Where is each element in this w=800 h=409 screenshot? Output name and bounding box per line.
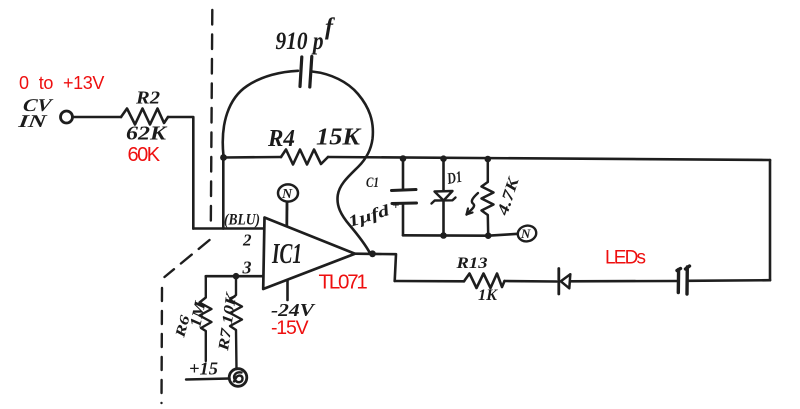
svg-text:R2: R2 <box>135 88 160 108</box>
node N circle right <box>516 224 537 243</box>
wire output to corner and down <box>355 254 396 281</box>
resistor 4.7K branch <box>482 159 494 236</box>
op-amp U1 triangle <box>263 218 355 290</box>
wire into pin 2 <box>193 227 263 230</box>
wire LED2 to right rail <box>688 279 770 282</box>
wire input to R2 <box>73 116 121 119</box>
svg-text:C1: C1 <box>366 175 379 191</box>
svg-text:62K: 62K <box>126 124 168 145</box>
svg-text:R13: R13 <box>455 255 487 272</box>
svg-text:R4: R4 <box>267 126 295 152</box>
wire junction to pin2 node <box>222 158 225 229</box>
dashed line vertical bottom <box>160 288 163 403</box>
dashed line vertical top <box>211 10 213 227</box>
feedback loop right arc and S-curve to output <box>312 72 373 253</box>
svg-text:D1: D1 <box>445 169 463 188</box>
resistor R4 <box>281 150 328 165</box>
wire into pin 3 <box>206 275 263 278</box>
resistor R7 10K vertical <box>230 276 242 369</box>
capacitor C1 branch <box>402 159 405 190</box>
svg-text:2: 2 <box>242 231 252 250</box>
svg-text:15K: 15K <box>316 125 362 151</box>
right vertical rail <box>769 160 772 280</box>
resistor R13 <box>464 274 505 289</box>
svg-text:3: 3 <box>242 258 252 278</box>
node dot C1 top <box>400 155 407 162</box>
svg-text:N: N <box>281 187 293 202</box>
svg-text:60K: 60K <box>128 144 161 166</box>
svg-text:0 to +13V: 0 to +13V <box>19 73 104 93</box>
node junction dot <box>220 154 227 161</box>
LED D2 <box>557 269 560 295</box>
LED D3 <box>677 269 681 293</box>
resistor R6 1M vertical <box>200 276 212 361</box>
svg-text:IN: IN <box>16 111 48 131</box>
svg-text:f: f <box>325 15 335 41</box>
wire R2 to corner, down to pin2 <box>168 117 193 229</box>
svg-text:910 p: 910 p <box>276 28 324 55</box>
svg-text:-15V: -15V <box>271 317 309 339</box>
svg-text:IC1: IC1 <box>271 239 302 270</box>
top rail wire right <box>328 157 770 160</box>
resistor R2 <box>121 109 168 125</box>
svg-text:TL071: TL071 <box>319 271 368 294</box>
node dot 4.7K top <box>485 156 492 163</box>
output node dot <box>369 250 376 257</box>
wire LED1 to LED2 <box>571 280 677 283</box>
top rail wire left <box>224 156 282 159</box>
label CV IN (handwritten) <box>16 95 55 131</box>
bottom rail of C1/D1/4.7K <box>403 234 518 236</box>
svg-text:(BLU): (BLU) <box>224 212 260 229</box>
dashed line diagonal <box>165 240 210 277</box>
svg-text:+: + <box>392 198 399 213</box>
junction dot pin3/R7 <box>233 273 240 280</box>
svg-text:LEDs: LEDs <box>605 248 646 269</box>
svg-text:1K: 1K <box>478 287 499 304</box>
svg-text:N: N <box>520 226 531 241</box>
zener D1 branch <box>442 159 445 191</box>
node N circle above op-amp <box>278 184 298 201</box>
feedback loop left arc <box>223 71 298 156</box>
svg-text:4.7K: 4.7K <box>494 174 523 218</box>
arrow squiggle at D1 <box>467 193 479 215</box>
op-amp negative supply lead <box>286 281 289 301</box>
wire R13 to LED1 <box>505 280 557 283</box>
wire to R13 <box>395 280 464 283</box>
node dots bottom rail <box>440 232 447 239</box>
capacitor 910pf plates <box>300 57 302 87</box>
node dot D1 top <box>440 155 447 162</box>
svg-text:1µfd: 1µfd <box>346 202 392 231</box>
input terminal circle <box>61 111 73 123</box>
ground symbol circled spiral <box>229 369 247 387</box>
svg-text:+15: +15 <box>189 359 218 379</box>
